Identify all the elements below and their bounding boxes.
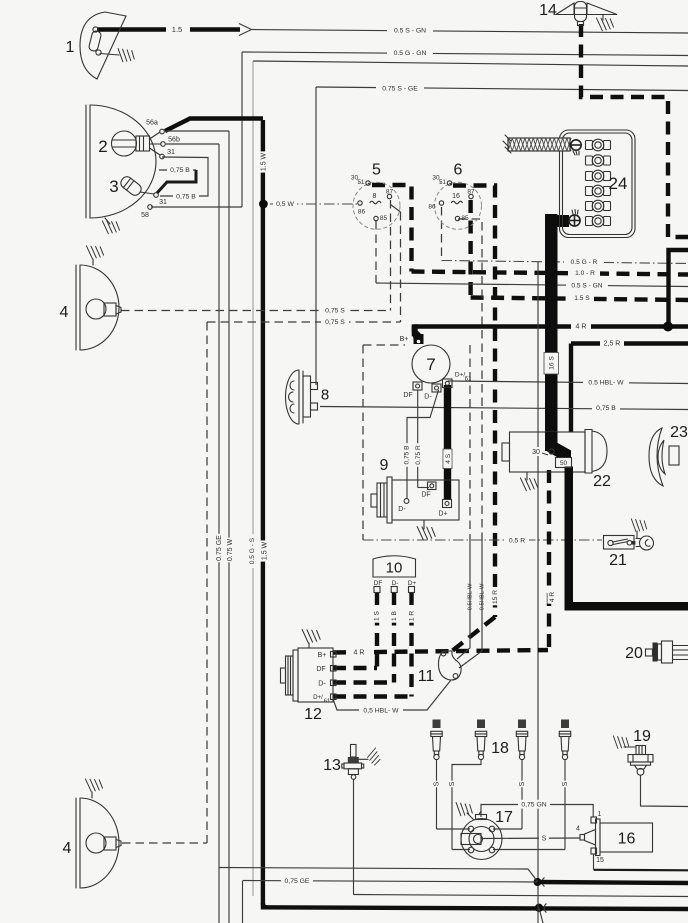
- svg-text:50: 50: [560, 460, 568, 467]
- svg-text:85: 85: [461, 215, 469, 222]
- svg-text:0,5 W: 0,5 W: [276, 201, 294, 208]
- svg-text:17: 17: [495, 809, 513, 826]
- svg-text:87: 87: [386, 188, 394, 195]
- svg-text:7: 7: [426, 355, 435, 374]
- svg-text:85: 85: [380, 215, 388, 222]
- svg-text:8: 8: [373, 193, 377, 200]
- svg-text:4: 4: [60, 304, 69, 321]
- svg-text:61: 61: [324, 699, 330, 705]
- svg-text:1.5 S: 1.5 S: [574, 295, 590, 302]
- svg-text:15 R: 15 R: [492, 590, 499, 604]
- svg-text:0,75 B: 0,75 B: [596, 405, 616, 412]
- svg-text:D-: D-: [398, 506, 406, 513]
- svg-text:B+: B+: [318, 652, 327, 659]
- svg-text:3: 3: [109, 177, 118, 196]
- svg-text:DF: DF: [374, 580, 383, 587]
- svg-text:0,75 GN: 0,75 GN: [521, 802, 546, 809]
- svg-text:4: 4: [576, 826, 580, 833]
- svg-text:21: 21: [609, 552, 627, 569]
- svg-text:0.5 S - GN: 0.5 S - GN: [394, 27, 426, 34]
- svg-text:19: 19: [633, 728, 651, 745]
- svg-text:31: 31: [167, 149, 175, 156]
- svg-text:24: 24: [609, 174, 628, 193]
- svg-text:1: 1: [66, 39, 75, 56]
- svg-text:1: 1: [598, 811, 602, 818]
- svg-text:6: 6: [454, 161, 463, 178]
- svg-text:D+/: D+/: [313, 694, 323, 701]
- svg-text:S: S: [434, 781, 441, 786]
- svg-text:0,75 S: 0,75 S: [325, 307, 345, 314]
- svg-text:87: 87: [467, 188, 475, 195]
- svg-text:DF: DF: [403, 392, 412, 399]
- svg-text:0.5 G - GN: 0.5 G - GN: [394, 50, 427, 57]
- svg-text:56b: 56b: [168, 137, 180, 144]
- svg-text:0,75 B: 0,75 B: [170, 167, 190, 174]
- svg-text:D-: D-: [424, 394, 432, 401]
- svg-text:D+: D+: [438, 511, 447, 518]
- svg-text:0.5 G - S: 0.5 G - S: [249, 537, 256, 564]
- svg-text:2,5 R: 2,5 R: [604, 341, 621, 348]
- svg-text:0.5 S - GN: 0.5 S - GN: [571, 282, 602, 289]
- svg-text:20: 20: [625, 645, 643, 662]
- svg-text:12: 12: [304, 706, 322, 723]
- svg-text:1.0 - R: 1.0 - R: [575, 270, 595, 277]
- svg-text:DF: DF: [421, 492, 430, 499]
- svg-text:D+: D+: [408, 580, 417, 587]
- svg-text:0.75 W: 0.75 W: [227, 539, 234, 562]
- svg-text:4 R: 4 R: [354, 649, 365, 656]
- svg-text:16: 16: [618, 830, 636, 847]
- svg-text:30: 30: [532, 449, 540, 456]
- svg-text:0.5 R: 0.5 R: [509, 537, 525, 544]
- svg-text:5: 5: [372, 161, 381, 178]
- svg-text:11: 11: [418, 668, 435, 685]
- svg-text:86: 86: [428, 203, 436, 210]
- svg-text:2: 2: [98, 137, 107, 156]
- svg-text:16 S: 16 S: [548, 356, 555, 370]
- svg-text:4: 4: [63, 840, 72, 857]
- svg-text:0.75 GE: 0.75 GE: [216, 535, 223, 561]
- svg-text:1 B: 1 B: [391, 610, 398, 620]
- svg-text:16: 16: [452, 193, 460, 200]
- svg-text:8: 8: [321, 386, 329, 403]
- svg-text:61: 61: [465, 377, 472, 383]
- svg-text:14: 14: [539, 2, 557, 19]
- svg-text:0.5HBL-W: 0.5HBL-W: [468, 583, 474, 610]
- svg-text:0.5 HBL- W: 0.5 HBL- W: [588, 379, 624, 386]
- svg-text:1.5 W: 1.5 W: [262, 541, 269, 560]
- svg-text:1.5: 1.5: [172, 25, 182, 34]
- svg-text:18: 18: [491, 740, 509, 757]
- svg-text:10: 10: [386, 559, 403, 576]
- svg-text:S: S: [449, 781, 456, 786]
- svg-text:0,75 B: 0,75 B: [176, 193, 196, 200]
- svg-text:0,75 B: 0,75 B: [403, 445, 410, 465]
- svg-text:0.5HBL-W: 0.5HBL-W: [480, 583, 486, 610]
- svg-text:DF: DF: [316, 666, 325, 673]
- svg-text:D-: D-: [392, 580, 399, 587]
- svg-text:D-: D-: [318, 681, 326, 688]
- svg-text:23: 23: [670, 424, 688, 441]
- svg-text:S: S: [542, 836, 547, 843]
- svg-text:B+: B+: [400, 336, 409, 343]
- svg-text:0.5 G - R: 0.5 G - R: [571, 259, 598, 266]
- svg-text:0,5 HBL- W: 0,5 HBL- W: [363, 707, 399, 714]
- svg-text:1 R: 1 R: [408, 611, 415, 621]
- svg-text:0,75 R: 0,75 R: [415, 445, 422, 465]
- svg-text:1 S: 1 S: [373, 610, 380, 620]
- svg-text:0.75 S - GE: 0.75 S - GE: [382, 85, 418, 92]
- svg-text:S: S: [562, 781, 569, 786]
- svg-text:0,75 GE: 0,75 GE: [285, 878, 310, 885]
- svg-text:56a: 56a: [146, 120, 158, 127]
- svg-text:4 R: 4 R: [576, 324, 587, 331]
- svg-text:4 R: 4 R: [549, 592, 556, 602]
- svg-text:1.5 W: 1.5 W: [261, 152, 268, 171]
- svg-text:58: 58: [141, 212, 149, 219]
- svg-text:0,75 S: 0,75 S: [325, 319, 345, 326]
- svg-text:22: 22: [593, 473, 611, 490]
- svg-text:9: 9: [380, 457, 389, 474]
- svg-text:S: S: [519, 781, 526, 786]
- svg-text:86: 86: [358, 208, 366, 215]
- svg-text:31: 31: [159, 199, 167, 206]
- svg-text:4 S: 4 S: [445, 453, 452, 463]
- svg-text:13: 13: [323, 757, 341, 774]
- svg-text:15: 15: [596, 857, 604, 864]
